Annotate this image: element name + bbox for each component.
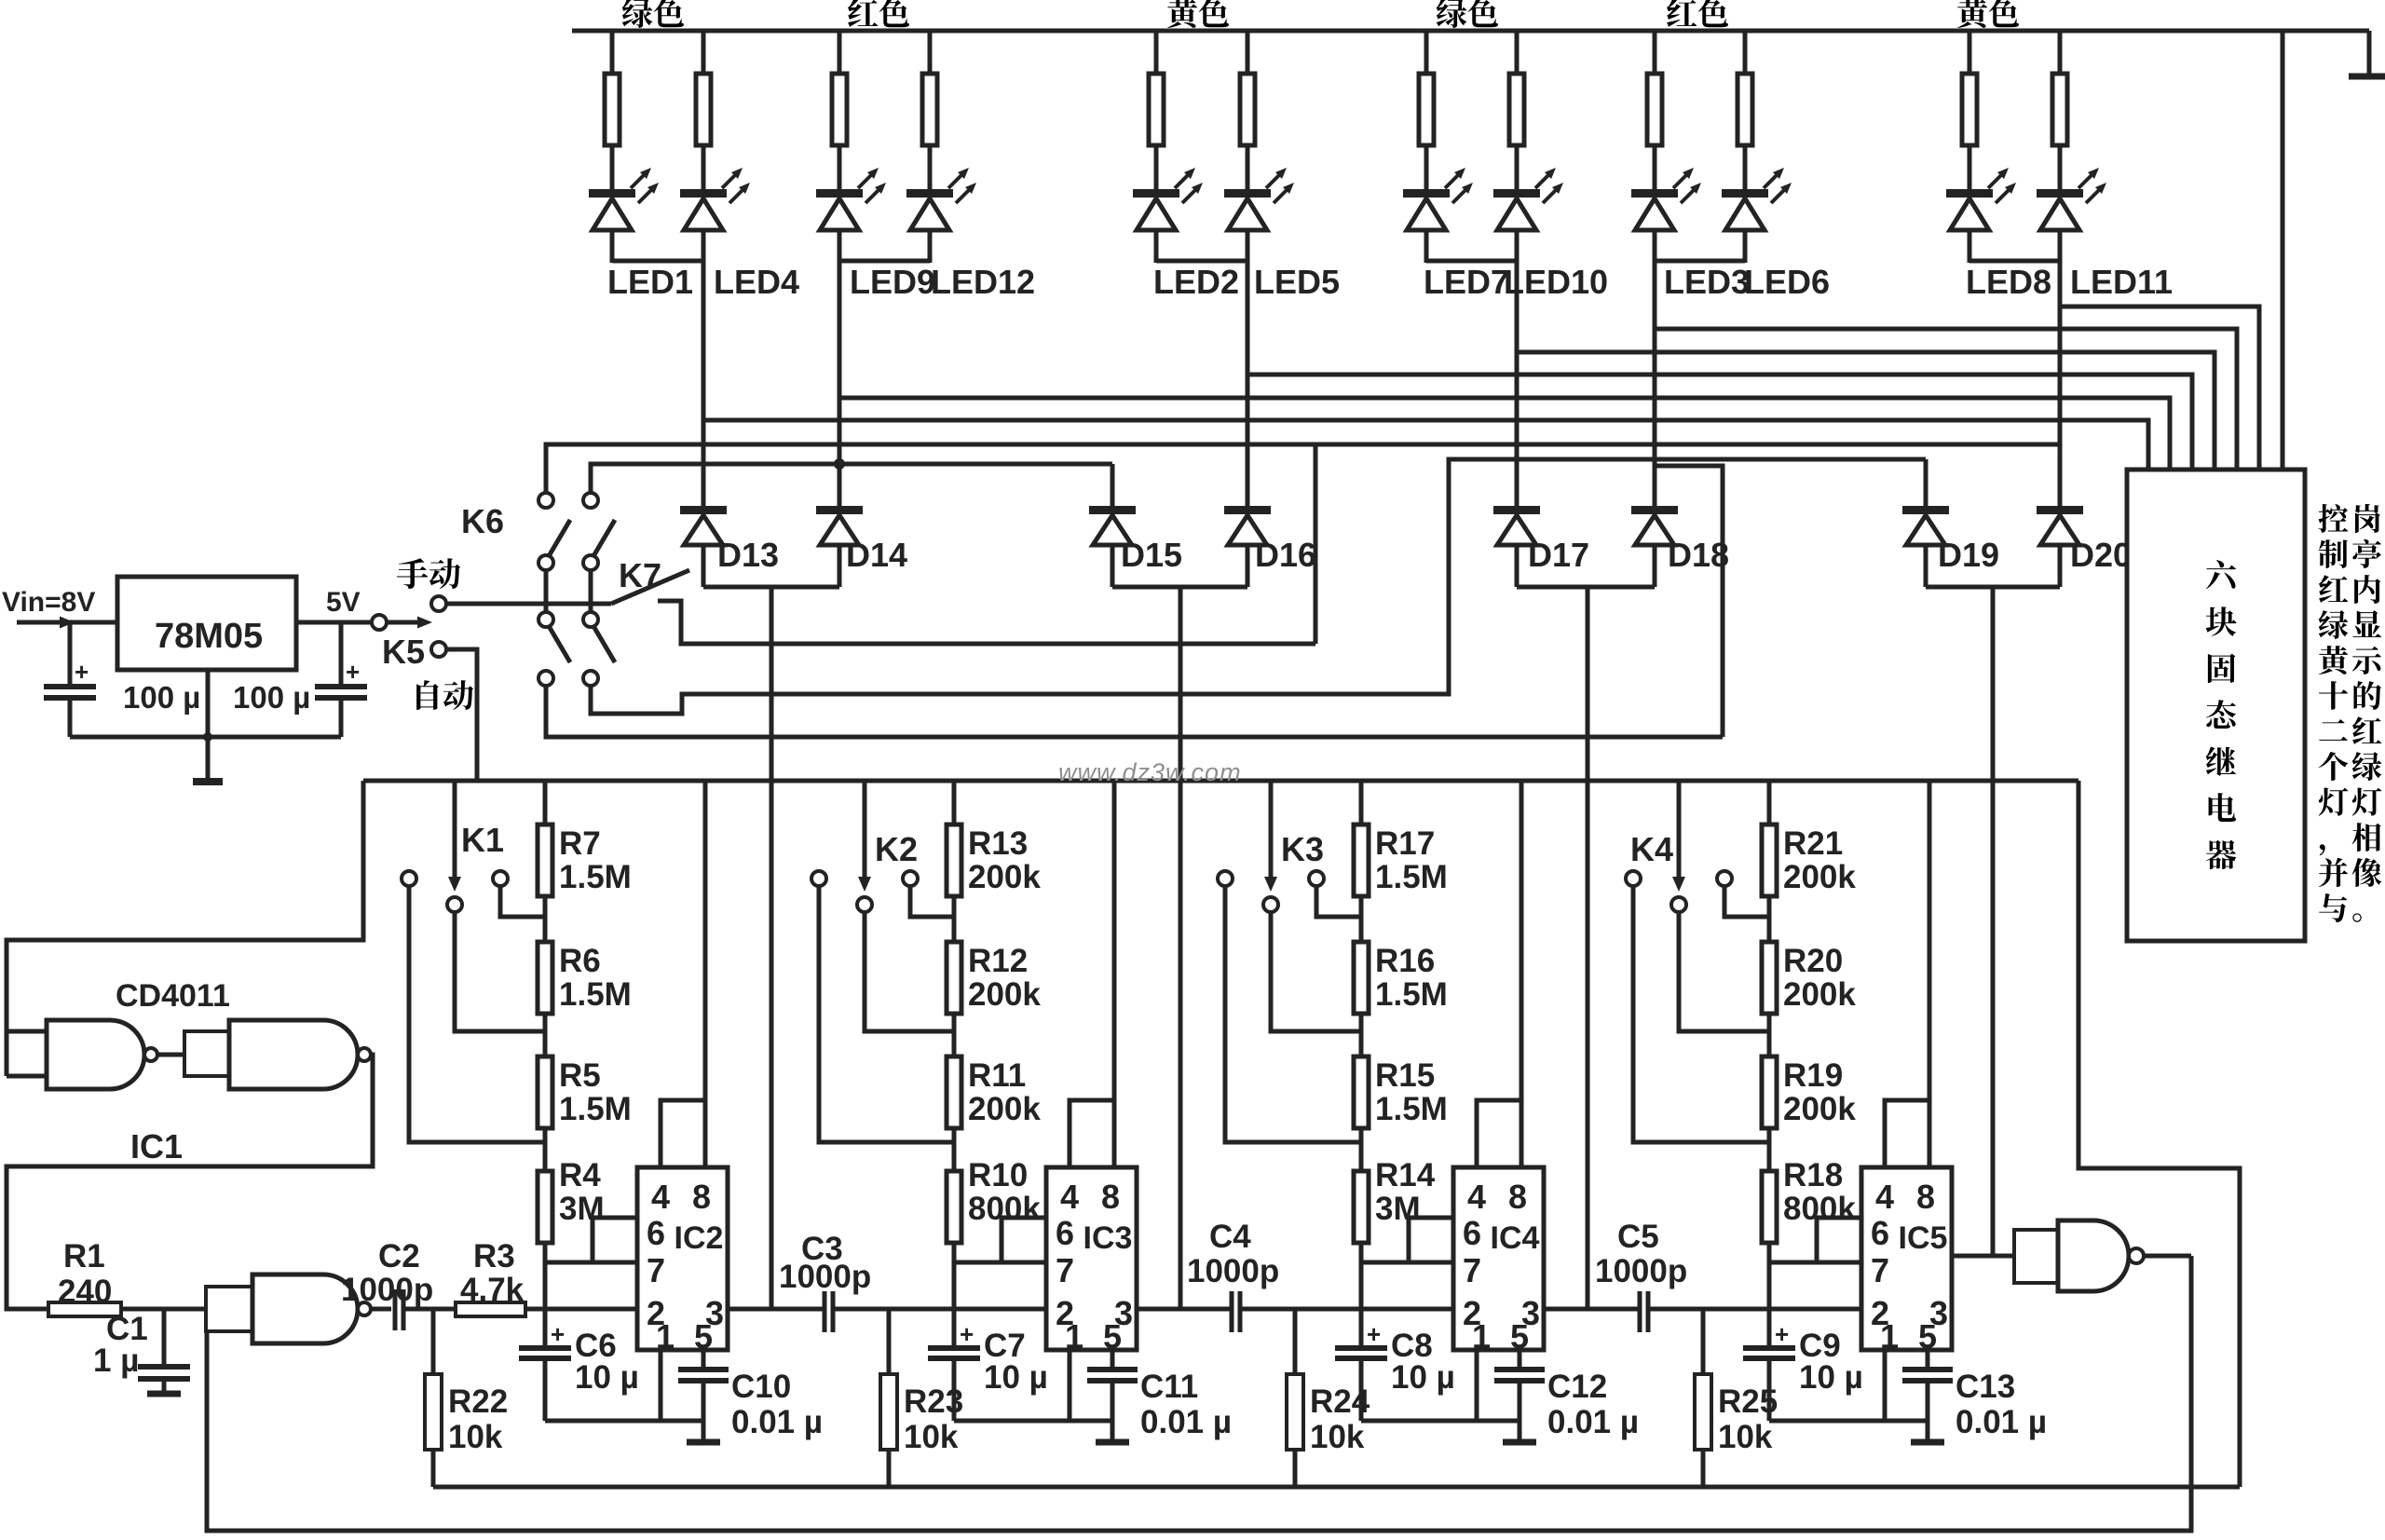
wire LED pair joining bar: [1969, 259, 2060, 264]
IC box IC5 (555): [1861, 1167, 1952, 1350]
svg-text:10 µ: 10 µ: [1799, 1359, 1863, 1396]
resistor R4: [538, 1171, 552, 1243]
capacitor C11 0.01u: [1111, 1350, 1115, 1368]
svg-text:R20: R20: [1783, 943, 1843, 979]
wire anode: [1653, 545, 1657, 587]
svg-text:C10: C10: [731, 1369, 791, 1405]
wire anode: [702, 545, 706, 587]
svg-text:R11: R11: [968, 1057, 1026, 1094]
wire left contact to R junction 3: [409, 885, 545, 1142]
wire diode anode pair bar: [1517, 585, 1655, 590]
ground: [1503, 1439, 1536, 1446]
gate U1B input stub: [184, 1031, 229, 1076]
wire: [1246, 230, 1250, 263]
wire: [1653, 230, 1657, 263]
wire regulator output: [296, 620, 373, 625]
svg-text:7: 7: [647, 1251, 665, 1289]
svg-text:+: +: [1775, 1320, 1789, 1348]
svg-text:5: 5: [1103, 1317, 1122, 1356]
svg-text:IC3: IC3: [1083, 1220, 1133, 1256]
svg-text:1000p: 1000p: [779, 1259, 871, 1295]
wire right contact to R junction 1: [500, 885, 545, 917]
resistor R17: [1354, 825, 1369, 896]
svg-text:1000p: 1000p: [1595, 1253, 1687, 1289]
svg-text:C11: C11: [1140, 1369, 1198, 1405]
svg-text:200k: 200k: [968, 1091, 1041, 1127]
svg-text:4: 4: [651, 1178, 670, 1216]
resistor R25 10k: [1701, 1309, 1706, 1374]
LED at x=657: [589, 189, 635, 198]
wire: [928, 230, 933, 263]
svg-text:D18: D18: [1668, 536, 1729, 574]
svg-text:+: +: [1367, 1320, 1381, 1348]
resistor R20: [1762, 942, 1777, 1014]
IC box IC4 (555): [1453, 1167, 1544, 1350]
wire: [1743, 230, 1748, 263]
wire pin4-pin8 loop to rail: [661, 1100, 705, 1167]
wire pair continues down: [1515, 261, 1520, 510]
svg-text:LED8: LED8: [1966, 263, 2051, 301]
svg-text:+: +: [346, 658, 360, 686]
wire branch x=2211: [2058, 31, 2063, 74]
svg-text:8: 8: [692, 1178, 711, 1216]
svg-text:LED4: LED4: [714, 263, 799, 301]
svg-text:800k: 800k: [968, 1191, 1041, 1227]
svg-text:K3: K3: [1281, 830, 1324, 868]
wire IC2 pin3 line: [728, 1307, 825, 1312]
wire to R23 and IC3 pin2: [833, 1307, 1046, 1312]
svg-text:R16: R16: [1375, 943, 1435, 979]
switch K6 column x=634: [583, 493, 598, 508]
wire: [1424, 230, 1429, 263]
svg-text:6: 6: [647, 1214, 665, 1252]
svg-text:200k: 200k: [1783, 1091, 1856, 1127]
wire diode anode pair bar: [1112, 585, 1247, 590]
svg-text:1 µ: 1 µ: [93, 1342, 139, 1379]
wire LED2/LED5 cathode bus to relay: [1247, 375, 2192, 470]
wire branch x=901: [838, 31, 842, 74]
wire anode junction drop to IC output: [1586, 587, 1590, 1309]
svg-text:LED1: LED1: [607, 263, 693, 301]
capacitor C1: [162, 1309, 167, 1365]
switch K3 selector arrow: [1269, 781, 1274, 881]
resistor R21: [1762, 825, 1777, 896]
wire left contact to R junction 3: [819, 885, 954, 1142]
resistor (ballast) x=1531: [1419, 74, 1434, 145]
svg-text:0.01 µ: 0.01 µ: [1547, 1404, 1639, 1440]
resistor R7: [538, 825, 552, 896]
wire branch x=998: [928, 31, 933, 74]
svg-text:C5: C5: [1617, 1219, 1659, 1255]
svg-text:10k: 10k: [1718, 1419, 1773, 1455]
wire anode: [1246, 545, 1250, 587]
wire: [610, 145, 615, 191]
label 黄色: [1957, 0, 1987, 28]
node output connector: [372, 615, 387, 630]
wire chain to pins 6/7 and cap: [543, 1243, 548, 1346]
svg-text:R23: R23: [904, 1383, 963, 1420]
wire: [610, 230, 615, 263]
wire rail to chain: [1767, 781, 1772, 825]
svg-text:100 µ: 100 µ: [233, 680, 310, 715]
wire: [2058, 145, 2063, 191]
wire LED pair joining bar: [839, 259, 930, 264]
capacitor C8 10u: [1335, 1345, 1387, 1351]
svg-text:LED12: LED12: [931, 263, 1035, 301]
wire K7 output: [658, 601, 1315, 644]
svg-text:1.5M: 1.5M: [559, 976, 632, 1013]
wire branch x=755: [702, 31, 706, 74]
capacitor C6 10u: [519, 1345, 571, 1351]
wire pin7/pin6 loop: [1002, 1218, 1046, 1262]
capacitor C10 0.01u: [702, 1350, 706, 1368]
wire R3 to IC2 pin2: [525, 1307, 637, 1312]
net +V top supply bus: [572, 29, 2369, 34]
wire: [838, 230, 842, 263]
switch K1 selector arrow: [453, 781, 457, 881]
label 自动: [416, 680, 439, 710]
wire pin4-pin8 loop to rail: [1885, 1100, 1929, 1167]
svg-text:1.5M: 1.5M: [559, 1091, 632, 1127]
svg-text:1: 1: [1472, 1317, 1491, 1356]
svg-text:10k: 10k: [904, 1419, 959, 1455]
wire power ground bus: [70, 735, 341, 740]
diode D17: [1493, 506, 1540, 514]
wire: [702, 145, 706, 191]
ground top-right: [2367, 31, 2372, 75]
wire pin4-pin8 loop to rail: [1070, 1100, 1114, 1167]
diode D13: [680, 506, 727, 514]
wire left contact to R junction 3: [1633, 885, 1769, 1142]
svg-text:R19: R19: [1783, 1057, 1843, 1094]
svg-text:1.5M: 1.5M: [1375, 1091, 1448, 1127]
note column A: [2355, 504, 2380, 533]
wire branch x=1776: [1653, 31, 1657, 74]
label 红色: [1667, 0, 1697, 27]
gate U1A (CD4011): [47, 1020, 144, 1089]
svg-text:C12: C12: [1547, 1369, 1607, 1405]
svg-text:4: 4: [1875, 1178, 1894, 1216]
LED at x=1628: [1493, 189, 1540, 198]
gate U1D (CD4011): [2058, 1220, 2129, 1291]
capacitor 100u output: [339, 622, 344, 685]
wire: [1424, 145, 1429, 191]
svg-text:10k: 10k: [448, 1419, 503, 1455]
wire anode: [838, 545, 842, 587]
wire: [1515, 230, 1520, 263]
svg-text:5V: 5V: [326, 587, 361, 618]
svg-text:D17: D17: [1528, 536, 1589, 574]
svg-text:D15: D15: [1121, 536, 1182, 574]
wire anode: [1924, 545, 1928, 587]
wire to R24 and IC4 pin2: [1240, 1307, 1453, 1312]
svg-text:R15: R15: [1375, 1057, 1435, 1094]
svg-text:78M05: 78M05: [155, 617, 263, 656]
svg-text:7: 7: [1056, 1251, 1074, 1289]
svg-text:R14: R14: [1375, 1157, 1436, 1193]
wire anode junction drop to IC output: [1991, 587, 1996, 1256]
wire IC4 pin3 line: [1544, 1307, 1640, 1312]
LED at x=1873: [1722, 189, 1768, 198]
svg-text:R24: R24: [1310, 1383, 1370, 1420]
resistor R15: [1354, 1056, 1369, 1128]
wire wiper contact to R junction 2: [1271, 911, 1361, 1031]
regulator 78M05: [117, 577, 296, 670]
svg-text:240: 240: [58, 1274, 112, 1310]
wire ground link: [1361, 1419, 1520, 1424]
svg-text:LED7: LED7: [1424, 263, 1509, 301]
svg-text:7: 7: [1463, 1251, 1481, 1289]
wire: [1154, 145, 1159, 191]
svg-text:R5: R5: [559, 1057, 601, 1094]
label 绿色: [622, 0, 653, 28]
label 手动: [397, 558, 428, 589]
svg-text:LED11: LED11: [2070, 263, 2173, 301]
svg-text:R25: R25: [1718, 1383, 1778, 1420]
resistor R22 10k: [431, 1309, 436, 1374]
svg-text:7: 7: [1871, 1251, 1889, 1289]
relay box 6x solid state: [2127, 470, 2305, 941]
wire pin1 down: [1883, 1350, 1888, 1421]
svg-text:4: 4: [1467, 1178, 1486, 1216]
wire rail right loop to reset bus: [2078, 781, 2240, 1487]
resistor R18: [1762, 1171, 1777, 1243]
resistor R12: [947, 942, 961, 1014]
wire U1D output feedback: [2144, 1254, 2191, 1259]
junction D14 cathode with K6 line: [834, 458, 845, 470]
LED at x=998: [906, 189, 953, 198]
capacitor C5 1000p: [1638, 1291, 1642, 1332]
IC box IC3 (555): [1046, 1167, 1137, 1350]
wire ground link: [545, 1419, 703, 1424]
wire pin1 down: [659, 1350, 663, 1421]
svg-text:+: +: [75, 658, 89, 686]
svg-text:IC1: IC1: [130, 1127, 183, 1165]
wire branch x=1241: [1154, 31, 1159, 74]
wire ground link: [1769, 1419, 1928, 1424]
wire rail left loop to IC1 input: [7, 781, 363, 1076]
capacitor C3 1000p: [823, 1291, 827, 1332]
wire LED3/LED6 cathode bus to relay: [1655, 329, 2237, 470]
wire 5V arrow to switch: [386, 620, 419, 625]
wire right contact to R junction 1: [910, 885, 954, 917]
svg-text:IC4: IC4: [1491, 1220, 1540, 1256]
wire LED9/LED12 cathode bus to relay: [839, 398, 2170, 470]
label 黄色: [1167, 0, 1197, 28]
LED at x=2211: [2037, 189, 2083, 198]
wire diode anode pair bar: [1926, 585, 2060, 590]
capacitor C9 10u: [1743, 1345, 1795, 1351]
svg-text:+: +: [960, 1320, 974, 1348]
wire IC5 output to gate U1D: [1952, 1254, 2014, 1259]
wire rail to chain: [543, 781, 548, 825]
capacitor 100u input: [68, 622, 73, 685]
wire branch x=657: [610, 31, 615, 74]
net bottom feedback bus: [207, 1256, 2191, 1531]
svg-text:200k: 200k: [968, 859, 1041, 895]
resistor R6: [538, 942, 552, 1014]
wire pin4-pin8 loop to rail: [1477, 1100, 1521, 1167]
wire pair continues down: [1246, 261, 1250, 510]
wire: [2058, 230, 2063, 263]
diode D20: [2037, 506, 2083, 514]
svg-text:D19: D19: [1938, 536, 1999, 574]
wire wiper contact to R junction 2: [455, 911, 545, 1031]
wire left contact to R junction 3: [1225, 885, 1361, 1142]
switch K2 contacts: [811, 871, 826, 886]
switch K1 contacts: [402, 871, 416, 886]
switch K4 contacts: [1626, 871, 1641, 886]
svg-text:R22: R22: [448, 1383, 508, 1420]
svg-text:3M: 3M: [1375, 1191, 1421, 1227]
resistor (ballast) x=2114: [1962, 74, 1977, 145]
svg-text:LED10: LED10: [1504, 263, 1608, 301]
ground: [687, 1439, 720, 1446]
wire rail to chain: [952, 781, 957, 825]
wire branch x=1339: [1246, 31, 1250, 74]
wire: [1653, 145, 1657, 191]
ground: [1911, 1439, 1944, 1446]
svg-text:Vin=8V: Vin=8V: [2, 587, 95, 618]
wire pin1 down: [1475, 1350, 1479, 1421]
wire manual line to K7: [445, 602, 604, 606]
diode D14: [816, 506, 863, 514]
wire branch x=1873: [1743, 31, 1748, 74]
net 5V rail lower: [363, 779, 2078, 784]
wire to R25 and IC5 pin2: [1648, 1307, 1861, 1312]
svg-text:10 µ: 10 µ: [575, 1359, 639, 1396]
wire anode: [1515, 545, 1520, 587]
wire pin7/pin6 loop: [1409, 1218, 1453, 1262]
svg-text:5: 5: [1510, 1317, 1529, 1356]
resistor R11: [947, 1056, 961, 1128]
svg-text:IC2: IC2: [675, 1220, 724, 1256]
svg-text:6: 6: [1463, 1214, 1481, 1252]
svg-text:4.7k: 4.7k: [460, 1272, 525, 1308]
wire rail to chain: [1359, 781, 1364, 825]
LED at x=1776: [1631, 189, 1678, 198]
wire: [1968, 145, 1972, 191]
svg-text:R17: R17: [1375, 825, 1435, 862]
capacitor C2: [393, 1289, 398, 1330]
wire pin1 down: [1068, 1350, 1072, 1421]
svg-text:K5: K5: [382, 633, 425, 671]
resistor (ballast) x=2211: [2052, 74, 2067, 145]
gate U1C (CD4011): [252, 1274, 358, 1343]
svg-text:K1: K1: [461, 821, 504, 859]
gate U1B (CD4011): [229, 1020, 358, 1089]
wire right contact to R junction 1: [1724, 885, 1769, 917]
svg-text:LED3: LED3: [1664, 263, 1750, 301]
capacitor C12 0.01u: [1518, 1350, 1522, 1368]
wire LED7/LED10 cathode bus to relay: [1517, 352, 2215, 470]
LED at x=1241: [1133, 189, 1179, 198]
wire pin7/pin6 loop: [1817, 1218, 1861, 1262]
diode D15: [1089, 506, 1136, 514]
wire pair continues down: [838, 261, 842, 510]
wire bus to relay box (rightmost): [2281, 31, 2285, 470]
wire wiper contact to R junction 2: [865, 911, 954, 1031]
wire LED11 cathode bus to relay: [2060, 307, 2259, 470]
capacitor C4 1000p: [1230, 1291, 1234, 1332]
svg-text:R7: R7: [559, 825, 601, 862]
svg-text:6: 6: [1056, 1214, 1074, 1252]
svg-text:8: 8: [1101, 1178, 1120, 1216]
resistor (ballast) x=1628: [1509, 74, 1524, 145]
note column B: [2318, 504, 2348, 533]
svg-text:+: +: [551, 1320, 565, 1348]
IC box IC2 (555): [637, 1167, 728, 1350]
wire LED3/D18 node to K6 wire: [1655, 466, 1723, 737]
wire diode anode pair bar: [703, 585, 839, 590]
wire: [928, 145, 933, 191]
resistor (ballast) x=1241: [1149, 74, 1164, 145]
wire: [838, 145, 842, 191]
resistor R16: [1354, 942, 1369, 1014]
resistor (ballast) x=1339: [1240, 74, 1255, 145]
wire chain to pins 6/7 and cap: [952, 1243, 957, 1346]
wire LED pair joining bar: [1426, 259, 1517, 264]
svg-text:100 µ: 100 µ: [123, 680, 200, 715]
svg-text:R18: R18: [1783, 1157, 1843, 1193]
wire K6 col1 top contact to yellow line: [546, 444, 2060, 494]
wire: [702, 230, 706, 263]
capacitor C13 0.01u: [1926, 1350, 1930, 1368]
resistor R14: [1354, 1171, 1369, 1243]
wire LED pair joining bar: [1655, 259, 1745, 264]
svg-text:R1: R1: [63, 1238, 105, 1274]
svg-text:0.01 µ: 0.01 µ: [731, 1404, 823, 1440]
svg-text:D20: D20: [2070, 536, 2132, 574]
wire chain to pins 6/7 and cap: [1359, 1243, 1364, 1346]
wire anode junction drop to IC output: [1179, 587, 1183, 1309]
label 六块固态继电器: [2206, 560, 2236, 589]
svg-text:0.01 µ: 0.01 µ: [1140, 1404, 1232, 1440]
resistor R5: [538, 1056, 552, 1128]
svg-text:200k: 200k: [968, 976, 1041, 1013]
label 绿色: [1437, 0, 1467, 28]
svg-text:www.dz3w.com: www.dz3w.com: [1058, 758, 1242, 786]
resistor (ballast) x=901: [832, 74, 847, 145]
switch K3 contacts: [1218, 871, 1233, 886]
wire anode junction drop to IC output: [770, 587, 774, 1309]
svg-text:1.5M: 1.5M: [1375, 976, 1448, 1013]
svg-text:200k: 200k: [1783, 976, 1856, 1013]
svg-text:LED9: LED9: [850, 263, 935, 301]
svg-text:LED2: LED2: [1153, 263, 1239, 301]
svg-text:D13: D13: [717, 536, 779, 574]
wire IC3 pin3 line: [1137, 1307, 1232, 1312]
wire U1A out to U1B in: [157, 1053, 184, 1057]
svg-text:R4: R4: [559, 1157, 601, 1193]
LED at x=2114: [1946, 189, 1993, 198]
svg-text:1000p: 1000p: [341, 1272, 433, 1308]
svg-text:K7: K7: [619, 556, 661, 594]
wire right contact to R junction 1: [1316, 885, 1361, 917]
wire U1B output feedback to R1: [7, 1055, 373, 1309]
wire R1 to gate U1C: [121, 1307, 206, 1312]
switch K7 blade: [611, 570, 689, 604]
wire anode: [2058, 545, 2063, 587]
wire chain to pins 6/7 and cap: [1767, 1243, 1772, 1346]
svg-text:1000p: 1000p: [1187, 1253, 1279, 1289]
node K5 auto contact: [431, 642, 446, 657]
svg-text:R21: R21: [1783, 825, 1843, 862]
wire LED1/LED4 cathode bus to relay: [703, 420, 2148, 470]
svg-text:R6: R6: [559, 943, 601, 979]
wire: [1246, 145, 1250, 191]
svg-text:10 µ: 10 µ: [1391, 1359, 1455, 1396]
